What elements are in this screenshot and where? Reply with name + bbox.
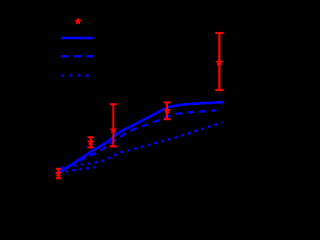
- star P1: [55, 169, 63, 176]
- star P2: [87, 138, 95, 145]
- star P3: [110, 126, 118, 133]
- dotted curve: [60, 122, 223, 168]
- error bar P4: [164, 102, 171, 119]
- dashed curve: [58, 110, 216, 173]
- dotted lower short row: [59, 167, 100, 174]
- error bar P3: [110, 104, 117, 146]
- star P4: [163, 107, 171, 114]
- legend solid line sample: [61, 37, 94, 40]
- star P5: [215, 58, 223, 66]
- legend star marker: [74, 17, 82, 24]
- legend dotted line sample: [61, 74, 89, 77]
- error bar P5: [215, 33, 223, 90]
- legend dashed line sample: [61, 55, 93, 57]
- error bar P2: [87, 137, 93, 147]
- solid curve: [58, 102, 223, 173]
- error bar P1: [56, 169, 61, 178]
